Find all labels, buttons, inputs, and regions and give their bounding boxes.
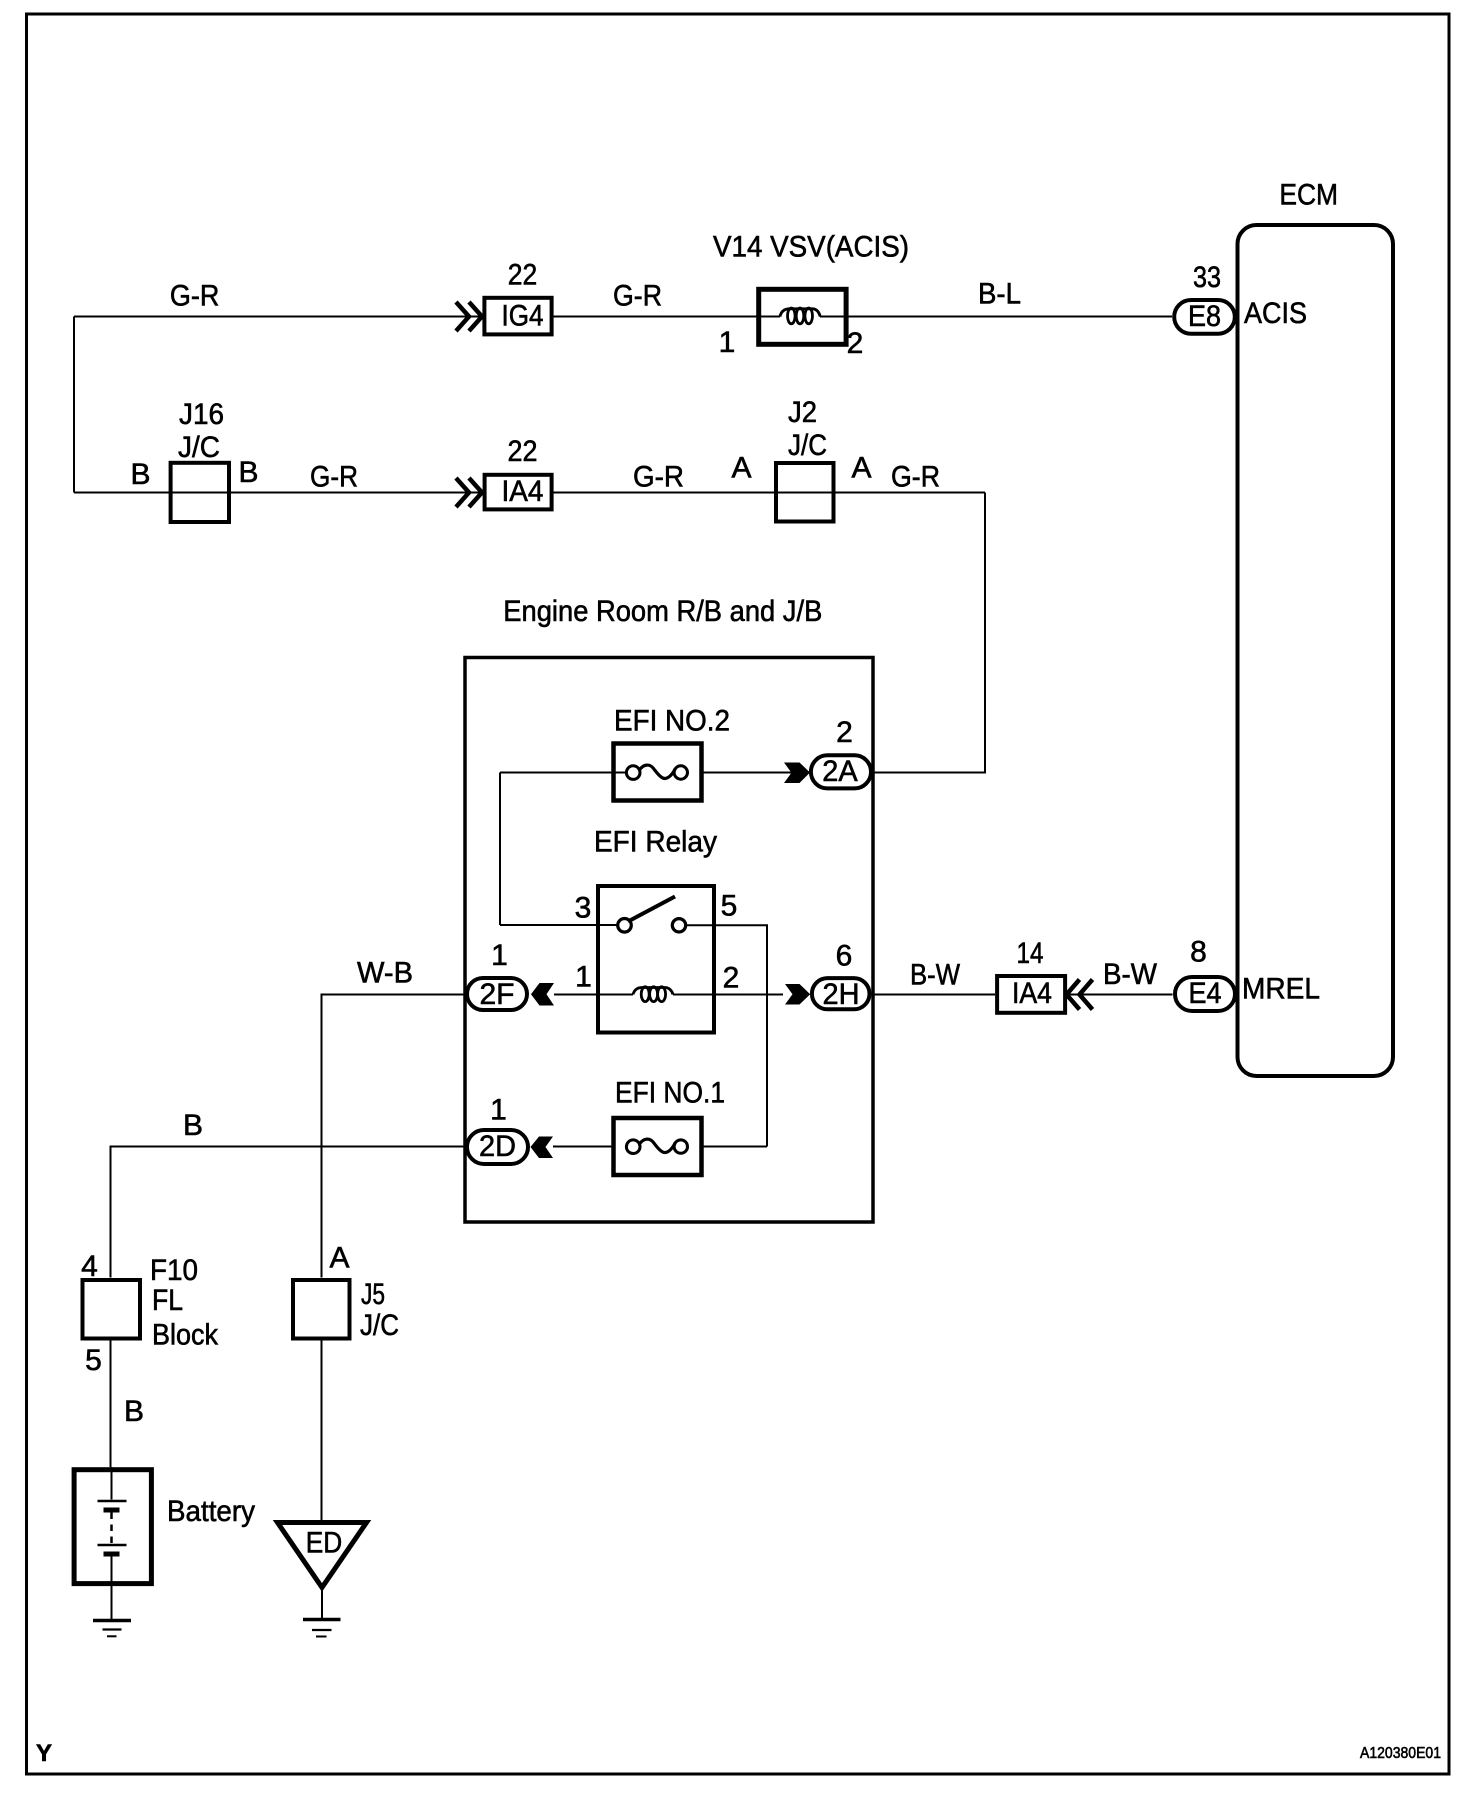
svg-text:A: A <box>851 452 871 485</box>
svg-text:2: 2 <box>723 962 740 995</box>
svg-text:E4: E4 <box>1189 977 1222 1010</box>
svg-text:EFI Relay: EFI Relay <box>594 826 717 859</box>
svg-text:Y: Y <box>36 1740 52 1767</box>
chevron arrow from E4 <box>1067 980 1093 1010</box>
svg-text:ED: ED <box>306 1527 343 1560</box>
svg-text:EFI NO.2: EFI NO.2 <box>614 705 730 738</box>
svg-text:2A: 2A <box>822 755 857 788</box>
svg-text:J16: J16 <box>179 398 224 431</box>
svg-text:B: B <box>124 1395 144 1428</box>
svg-text:MREL: MREL <box>1242 973 1320 1006</box>
wire B from 2D to F10 <box>111 1147 466 1278</box>
wire G-R row1 from corner to chevron <box>74 316 482 318</box>
svg-text:J5: J5 <box>361 1278 385 1311</box>
svg-text:B-W: B-W <box>910 959 961 992</box>
connector IG4 <box>484 298 551 335</box>
chevron arrow IG4 <box>456 302 482 331</box>
arrow out of 2D <box>531 1137 554 1159</box>
svg-text:IA4: IA4 <box>502 475 544 508</box>
wire 2D row <box>553 1146 612 1148</box>
wire EFI NO.2 row <box>500 772 626 774</box>
junction J2 J/C <box>776 463 834 522</box>
ground triangle ED <box>278 1523 367 1588</box>
svg-text:G-R: G-R <box>613 280 662 313</box>
wire relay pin3 <box>500 924 618 926</box>
svg-text:IG4: IG4 <box>502 300 544 333</box>
svg-text:8: 8 <box>1190 936 1207 969</box>
svg-text:1: 1 <box>490 1094 507 1127</box>
connector IA4 row2 <box>485 475 552 510</box>
chevron arrow IA4 <box>456 478 482 507</box>
svg-text:G-R: G-R <box>170 280 220 313</box>
svg-text:V14 VSV(ACIS): V14 VSV(ACIS) <box>713 231 909 264</box>
svg-text:F10: F10 <box>150 1254 198 1287</box>
ground ED <box>303 1618 341 1621</box>
svg-text:EFI NO.1: EFI NO.1 <box>615 1077 725 1110</box>
wire row2 IA4 to J2 and beyond <box>553 492 985 494</box>
wire B-W 2H to IA4 <box>872 994 995 996</box>
wire B-L VSV to E8 <box>847 316 1172 318</box>
arrow into 2H <box>785 984 810 1005</box>
svg-text:2: 2 <box>836 716 853 749</box>
fuse EFI NO.1 <box>614 1118 702 1175</box>
svg-text:2: 2 <box>847 327 864 360</box>
svg-text:J/C: J/C <box>788 429 827 462</box>
svg-text:B-W: B-W <box>1103 958 1158 991</box>
relay switch blade <box>628 897 675 922</box>
svg-text:A120380E01: A120380E01 <box>1360 1745 1441 1762</box>
svg-text:J/C: J/C <box>178 431 220 464</box>
svg-text:Engine Room R/B and J/B: Engine Room R/B and J/B <box>503 595 822 628</box>
wire vertical fuse2 to relay pin3 <box>499 773 501 926</box>
svg-text:22: 22 <box>508 259 538 292</box>
svg-text:6: 6 <box>836 940 853 973</box>
relay coil <box>633 988 673 995</box>
battery <box>74 1470 151 1584</box>
connector IA4 (14) <box>997 976 1065 1013</box>
Engine Room R/B and J/B box <box>465 658 873 1223</box>
wire ED to ground <box>321 1587 323 1619</box>
svg-text:2F: 2F <box>480 978 515 1011</box>
wire relay pin5 down to fuse1 <box>686 925 768 1146</box>
svg-text:4: 4 <box>81 1250 98 1283</box>
arrow into 2A <box>784 763 810 784</box>
fusible link F10 FL Block <box>83 1280 141 1339</box>
wire F10 to battery <box>110 1340 112 1467</box>
wire row2 through J16 <box>74 492 482 494</box>
svg-text:B: B <box>130 458 150 491</box>
svg-text:W-B: W-B <box>357 957 413 990</box>
arrow out of 2F <box>531 983 554 1006</box>
connector 2A <box>811 755 871 788</box>
svg-text:J2: J2 <box>788 396 817 429</box>
relay contact circles <box>618 919 632 933</box>
connector 2F <box>467 978 527 1010</box>
svg-text:B: B <box>183 1109 203 1142</box>
svg-text:1: 1 <box>575 961 592 994</box>
wire vertical left corner <box>73 317 75 493</box>
connector E8 <box>1174 300 1235 334</box>
VSV V14 coil component <box>759 289 846 344</box>
svg-text:3: 3 <box>575 892 592 925</box>
wire G-R down to 2A <box>871 493 985 773</box>
junction J16 J/C <box>171 463 229 522</box>
connector 2H <box>812 978 870 1009</box>
wire J5 to ED <box>321 1340 323 1522</box>
wire B-W E4 to IA4 <box>1067 994 1173 996</box>
ECM block <box>1238 225 1394 1076</box>
ground battery <box>93 1619 131 1622</box>
svg-text:A: A <box>731 452 751 485</box>
svg-text:1: 1 <box>719 326 736 359</box>
svg-text:Block: Block <box>152 1319 219 1352</box>
svg-text:B-L: B-L <box>978 278 1021 311</box>
junction J5 J/C <box>293 1280 350 1339</box>
svg-text:2H: 2H <box>823 978 860 1011</box>
svg-text:1: 1 <box>491 939 508 972</box>
wire G-R row1 IG4 to VSV <box>553 316 757 318</box>
svg-text:ECM: ECM <box>1279 179 1338 212</box>
connector E4 <box>1175 977 1235 1011</box>
svg-text:Battery: Battery <box>167 1495 255 1528</box>
svg-text:ACIS: ACIS <box>1244 297 1307 330</box>
svg-text:G-R: G-R <box>310 461 358 494</box>
svg-text:33: 33 <box>1193 261 1221 294</box>
wire fuse2 to 2A <box>702 772 792 774</box>
svg-text:B: B <box>238 456 258 489</box>
svg-text:G-R: G-R <box>633 461 684 494</box>
svg-text:5: 5 <box>85 1344 102 1377</box>
wire relay coil row <box>554 994 783 996</box>
svg-text:IA4: IA4 <box>1012 977 1052 1010</box>
svg-text:14: 14 <box>1017 937 1044 970</box>
svg-text:G-R: G-R <box>891 461 940 494</box>
EFI relay box <box>598 886 714 1033</box>
svg-text:J/C: J/C <box>360 1309 399 1342</box>
svg-text:FL: FL <box>152 1284 183 1317</box>
wire W-B from 2F to J5 <box>322 995 466 1278</box>
svg-text:22: 22 <box>508 435 538 468</box>
svg-text:5: 5 <box>721 890 738 923</box>
wire fuse1 to vertical <box>702 1146 767 1148</box>
svg-text:2D: 2D <box>479 1130 516 1163</box>
svg-text:E8: E8 <box>1188 300 1221 333</box>
svg-text:A: A <box>329 1242 349 1275</box>
fuse EFI NO.2 <box>614 744 702 801</box>
